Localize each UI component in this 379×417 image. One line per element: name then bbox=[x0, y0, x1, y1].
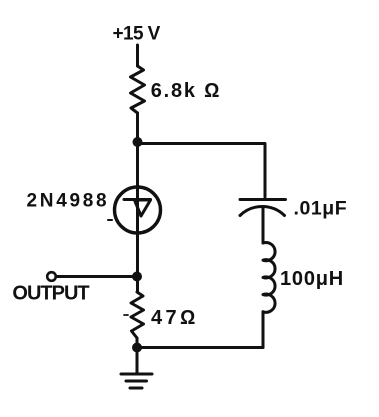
transistor Q1 gate bar bbox=[124, 198, 151, 201]
wire: vertical lead through Q1 bbox=[136, 188, 139, 292]
wire: +15V supply to resistor R1 bbox=[136, 45, 139, 66]
resistor R1 6.8k ohm zigzag bbox=[131, 66, 145, 113]
wire: bottom horizontal run node C to right branch bbox=[138, 346, 264, 349]
wire: R1 to node A bbox=[136, 113, 139, 188]
wire: node A to top of right branch bbox=[138, 144, 266, 198]
svg-text:2N4988: 2N4988 bbox=[27, 191, 110, 212]
transistor Q1 2N4988 envelope circle bbox=[115, 187, 161, 233]
ground symbol bottom bar bbox=[130, 387, 142, 390]
svg-text:6.8k Ω: 6.8k Ω bbox=[151, 80, 222, 102]
transistor Q1 triangle bbox=[135, 200, 151, 216]
wire: node C to ground bbox=[136, 348, 139, 374]
node C junction dot bbox=[132, 343, 142, 353]
node A junction dot bbox=[133, 137, 143, 147]
inductor L1 100uH coil bbox=[263, 243, 275, 313]
node B junction dot bbox=[132, 272, 142, 282]
wire: output terminal to node B bbox=[56, 275, 137, 278]
stray tick left of R2 bbox=[124, 314, 128, 316]
ground symbol top bar bbox=[121, 373, 152, 376]
svg-text:47Ω: 47Ω bbox=[151, 307, 199, 329]
svg-text:OUTPUT: OUTPUT bbox=[12, 283, 89, 305]
resistor R2 47 ohm zigzag bbox=[131, 292, 144, 338]
stray tick left of Q1 bbox=[108, 219, 112, 221]
output terminal circle bbox=[47, 272, 56, 281]
wire: inductor L1 to bottom node C bbox=[262, 312, 265, 348]
capacitor C1 top plate bbox=[240, 198, 286, 201]
svg-text:.01μF: .01μF bbox=[294, 198, 348, 220]
wire: R2 to node C bbox=[136, 338, 139, 348]
wire: capacitor C1 to inductor L1 bbox=[262, 207, 265, 243]
capacitor C1 curved bottom plate bbox=[240, 206, 285, 215]
svg-text:+15 V: +15 V bbox=[113, 24, 161, 45]
svg-text:100μH: 100μH bbox=[280, 268, 344, 290]
ground symbol middle bar bbox=[126, 380, 147, 383]
